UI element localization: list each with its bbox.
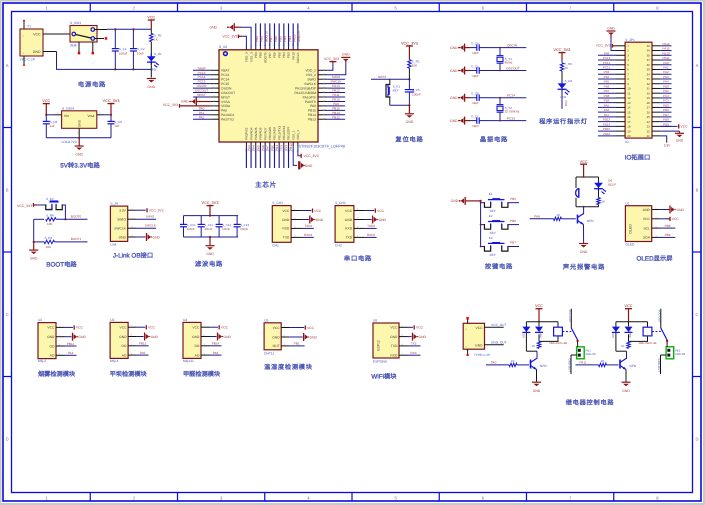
svg-text:RXD: RXD: [282, 227, 290, 231]
svg-text:VCC: VCC: [672, 217, 680, 221]
svg-text:OSCOUT: OSCOUT: [195, 89, 208, 93]
MCU bottom pins: [245, 126, 300, 153]
svg-text:PB4: PB4: [282, 52, 286, 58]
svg-text:PA10/RX: PA10/RX: [303, 95, 317, 99]
wire reset bottom: [390, 104, 410, 106]
button K2: [481, 224, 485, 226]
svg-text:PB12: PB12: [67, 342, 75, 346]
svg-text:PB7: PB7: [268, 52, 272, 58]
svg-text:OSCOUT: OSCOUT: [221, 91, 235, 95]
svg-text:PC0: PC0: [564, 101, 568, 107]
svg-text:PC13: PC13: [603, 56, 611, 60]
ground OLED: [660, 209, 668, 211]
svg-text:PA6: PA6: [213, 351, 219, 355]
MCU top pins: [245, 43, 300, 64]
svg-text:串口电路: 串口电路: [344, 254, 372, 262]
svg-text:PB0: PB0: [270, 145, 274, 151]
svg-text:PA6/AD6: PA6/AD6: [259, 127, 263, 140]
svg-text:PA1/AD1: PA1/AD1: [221, 113, 234, 117]
svg-text:GND: GND: [148, 85, 156, 89]
svg-text:LED: LED: [611, 333, 615, 338]
J-Link J6 body: [110, 206, 127, 241]
keys bus wire: [480, 201, 482, 246]
module U4 MQ131: [183, 318, 210, 363]
power VCC CH2: [365, 210, 375, 212]
svg-text:PA8: PA8: [310, 104, 316, 108]
MCU bottom wires: [246, 143, 293, 168]
svg-text:PA9/TX: PA9/TX: [305, 100, 317, 104]
svg-text:GND: GND: [78, 119, 82, 127]
svg-text:30: 30: [647, 91, 651, 95]
svg-text:PB8: PB8: [260, 36, 264, 42]
svg-text:D: D: [695, 436, 698, 441]
svg-text:VCC: VCC: [624, 304, 632, 308]
LED D2 run: [561, 81, 563, 92]
ground MCU bottom: [293, 147, 297, 166]
svg-text:VCC: VCC: [390, 326, 398, 330]
IO header pin numbers: [627, 44, 650, 138]
svg-text:PB2: PB2: [663, 103, 669, 107]
svg-text:RXD: RXD: [345, 227, 353, 231]
net VCC-OUT J7: [485, 326, 504, 328]
svg-text:NRST: NRST: [197, 93, 206, 97]
svg-text:18: 18: [627, 125, 631, 129]
MCU top wires: [255, 23, 301, 46]
svg-text:PA11: PA11: [579, 360, 586, 364]
svg-text:PA7: PA7: [266, 145, 270, 151]
svg-text:PC15: PC15: [198, 80, 206, 84]
svg-text:S_C4: S_C4: [471, 42, 479, 46]
svg-text:22: 22: [647, 129, 651, 133]
svg-text:SWIO: SWIO: [117, 218, 126, 222]
svg-text:VCC: VCC: [47, 326, 55, 330]
diode D green ch1: [522, 327, 530, 332]
wire crystal row 4: [486, 120, 526, 122]
net 3.3V IO row20: [660, 136, 666, 141]
svg-text:S_J6: S_J6: [110, 202, 118, 206]
svg-text:25: 25: [647, 115, 651, 119]
svg-text:GND: GND: [475, 344, 483, 348]
net RXD3: [408, 354, 421, 356]
switch output wire: [95, 29, 107, 31]
svg-text:K1: K1: [489, 192, 493, 196]
svg-text:PC14: PC14: [221, 78, 229, 82]
svg-text:GND: GND: [419, 335, 427, 339]
wire Vout: [97, 114, 104, 116]
svg-text:RX3: RX3: [410, 351, 416, 355]
ground boot: [33, 242, 35, 250]
diode D green ch2: [612, 327, 620, 332]
svg-text:PB8: PB8: [665, 224, 671, 228]
buzzer B1: [575, 177, 577, 188]
svg-text:GND: GND: [342, 53, 350, 57]
transistor Q3 NPN: [577, 215, 579, 224]
net PA7 DHT11: [290, 345, 305, 347]
svg-text:K2: K2: [489, 214, 493, 218]
svg-text:GND: GND: [533, 389, 541, 393]
svg-text:Vin: Vin: [64, 114, 69, 118]
svg-text:GND: GND: [181, 100, 189, 104]
svg-text:OSCIN: OSCIN: [197, 84, 207, 88]
svg-text:GND: GND: [79, 335, 87, 339]
svg-text:J-Link OB接口: J-Link OB接口: [113, 252, 153, 260]
svg-text:TXD1: TXD1: [304, 224, 312, 228]
svg-text:VCC: VCC: [643, 217, 651, 221]
svg-text:OUT: OUT: [273, 344, 280, 348]
OLED pins: [643, 207, 660, 240]
terminal wires ch1: [577, 341, 579, 347]
svg-text:S_C10: S_C10: [187, 223, 196, 227]
svg-text:S_R4: S_R4: [46, 213, 54, 217]
net SWIO: [137, 218, 156, 220]
power VCC U3: [137, 326, 146, 328]
svg-text:PB15: PB15: [308, 109, 316, 113]
svg-text:VCC: VCC: [221, 326, 229, 330]
svg-text:XBD-4W/C-4B: XBD-4W/C-4B: [549, 341, 567, 345]
svg-text:U8: U8: [373, 319, 377, 323]
svg-text:VCC: VCC: [377, 209, 385, 213]
svg-text:PB9: PB9: [604, 99, 610, 103]
svg-text:VCC: VCC: [192, 326, 200, 330]
power VCC IO row18: [660, 125, 677, 127]
svg-text:PB1: PB1: [663, 89, 669, 93]
LED D1: [150, 53, 152, 64]
ground filter: [209, 237, 211, 245]
svg-text:PA0: PA0: [221, 109, 227, 113]
svg-text:复位电路: 复位电路: [395, 136, 423, 144]
svg-text:GND: GND: [305, 164, 313, 168]
svg-text:VCC_3V3: VCC_3V3: [596, 44, 611, 48]
svg-text:S_SW1: S_SW1: [70, 21, 81, 25]
filter bottom rail: [184, 236, 239, 238]
svg-text:1K: 1K: [511, 359, 515, 363]
wire alarm emitter: [583, 225, 585, 244]
svg-text:甲醛检测模块: 甲醛检测模块: [183, 370, 220, 378]
svg-text:GND: GND: [450, 119, 458, 123]
svg-text:PA4/AD4: PA4/AD4: [249, 127, 253, 140]
svg-text:IO拓展口: IO拓展口: [625, 154, 651, 162]
svg-text:PA6: PA6: [604, 108, 610, 112]
svg-text:KEY: KEY: [490, 253, 496, 257]
MCU right wires: [327, 75, 345, 119]
wire boot left rail: [33, 219, 35, 242]
svg-text:S_C5: S_C5: [471, 65, 479, 69]
relay frame wires ch1: [526, 321, 558, 323]
capacitor C5: [408, 79, 410, 89]
svg-text:KEY: KEY: [393, 89, 399, 93]
capacitor S_C5: [470, 70, 477, 72]
svg-text:B: B: [696, 187, 699, 192]
svg-text:VCC-OUT: VCC-OUT: [568, 310, 572, 323]
svg-text:PA6: PA6: [261, 145, 265, 151]
capacitor S_C13: [236, 216, 238, 225]
svg-text:PA12/USB/DM: PA12/USB/DM: [294, 91, 316, 95]
T1 bottom pin: [23, 56, 25, 64]
power VCC_3V3 MCU bottom: [298, 147, 300, 156]
button K3: [481, 246, 485, 248]
wire R2 to node: [408, 68, 410, 79]
svg-text:ESP12: ESP12: [377, 340, 381, 351]
svg-text:GND: GND: [345, 218, 353, 222]
svg-text:DO: DO: [49, 344, 54, 348]
svg-text:11: 11: [627, 91, 630, 95]
svg-text:DO: DO: [194, 344, 199, 348]
svg-text:VCC: VCC: [120, 326, 128, 330]
svg-text:PB7: PB7: [269, 36, 273, 42]
svg-text:STM32F103C8T6_LQFP48: STM32F103C8T6_LQFP48: [299, 144, 345, 148]
svg-text:PA8: PA8: [604, 51, 610, 55]
svg-text:WiFi模块: WiFi模块: [371, 372, 397, 380]
svg-text:GND: GND: [450, 69, 458, 73]
svg-text:OLED: OLED: [625, 243, 635, 247]
svg-text:PB1/AD9: PB1/AD9: [273, 127, 277, 140]
svg-text:PC15: PC15: [507, 116, 515, 120]
MCU left pins: [210, 69, 235, 122]
alarm bottom node: [576, 206, 599, 208]
svg-text:PB6: PB6: [273, 52, 277, 58]
svg-text:35: 35: [647, 68, 651, 72]
wire emitter ch1: [536, 370, 538, 382]
switch S_SW1: [70, 26, 97, 43]
resistor R6: [561, 60, 563, 63]
svg-text:PA3: PA3: [247, 145, 251, 151]
svg-text:VBAT: VBAT: [603, 132, 611, 136]
svg-text:12pF: 12pF: [472, 124, 479, 128]
transistor NPN ch2: [619, 360, 621, 369]
svg-text:VCC: VCC: [476, 326, 484, 330]
svg-text:XBD-4W/C-4B: XBD-4W/C-4B: [639, 341, 657, 345]
svg-text:PC15: PC15: [221, 82, 229, 86]
svg-text:烟雾检测模块: 烟雾检测模块: [38, 370, 75, 378]
net PA6: [210, 354, 222, 356]
svg-text:SWIO: SWIO: [146, 215, 155, 219]
svg-text:VCC_3V3: VCC_3V3: [222, 34, 237, 38]
net RXD1: [302, 236, 314, 238]
resistor R2: [408, 60, 411, 69]
svg-text:8MHz: 8MHz: [505, 61, 513, 65]
svg-text:PB13: PB13: [308, 118, 316, 122]
ground U2: [65, 336, 72, 338]
svg-text:PB5: PB5: [278, 36, 282, 42]
module U2 MQ-2: [38, 318, 65, 363]
svg-text:32.768KHz: 32.768KHz: [505, 110, 520, 114]
svg-text:VBAT: VBAT: [221, 69, 229, 73]
capacitor C8: [45, 115, 47, 121]
relay coil box ch1: [554, 327, 563, 336]
svg-text:12pF: 12pF: [472, 101, 479, 105]
resistor relay coil ch2: [627, 341, 630, 348]
wire crystal row 2: [486, 70, 526, 72]
resistor R8 base: [554, 217, 562, 220]
svg-text:GND: GND: [272, 335, 280, 339]
svg-text:TX3: TX3: [280, 145, 284, 151]
svg-text:40: 40: [647, 44, 651, 48]
svg-text:21: 21: [647, 134, 651, 138]
wire R6 to LED: [561, 71, 563, 83]
svg-text:17: 17: [627, 120, 631, 124]
svg-text:A: A: [696, 63, 699, 68]
svg-text:OSCOUT: OSCOUT: [506, 66, 520, 70]
net PA5: [137, 354, 149, 356]
switch bottom pin 2: [92, 42, 94, 52]
MCU U6 body: [219, 50, 318, 142]
svg-text:PB12/SPI: PB12/SPI: [287, 126, 291, 140]
svg-text:VCC_3V3: VCC_3V3: [202, 201, 219, 205]
svg-text:23: 23: [647, 125, 651, 129]
svg-text:PA13/USB/DP: PA13/USB/DP: [295, 86, 317, 90]
diode D flyback ch2: [625, 327, 633, 332]
svg-text:3.3V: 3.3V: [664, 144, 671, 148]
svg-text:TAMP: TAMP: [197, 66, 205, 70]
svg-text:10uF: 10uF: [137, 51, 144, 55]
svg-text:SWIO: SWIO: [307, 78, 316, 82]
net PA4: [65, 354, 77, 356]
svg-text:PA4: PA4: [252, 145, 256, 151]
power VCC_3V3 jlink: [137, 209, 146, 211]
svg-text:BOOT1: BOOT1: [71, 237, 82, 241]
svg-text:GND: GND: [310, 335, 318, 339]
svg-text:U2: U2: [38, 318, 42, 322]
svg-text:T1: T1: [27, 25, 31, 29]
net BOOT0: [56, 218, 87, 220]
svg-text:VDD_1: VDD_1: [296, 130, 300, 140]
ground GND power circuit: [147, 78, 156, 80]
T1 top pin: [23, 22, 25, 30]
svg-text:VCC_3V3: VCC_3V3: [103, 99, 120, 103]
svg-text:PB12: PB12: [332, 115, 340, 119]
svg-text:MQ-4: MQ-4: [110, 359, 118, 363]
svg-text:PA5: PA5: [140, 351, 146, 355]
svg-text:PA7/AD7: PA7/AD7: [263, 127, 267, 140]
relay frame wires ch2: [616, 321, 648, 323]
svg-text:10K: 10K: [412, 64, 418, 68]
svg-text:PA2/TX2: PA2/TX2: [221, 118, 234, 122]
svg-text:PA1: PA1: [663, 66, 669, 70]
svg-text:33: 33: [647, 77, 651, 81]
svg-text:VSS_1: VSS_1: [291, 130, 295, 140]
resistor R4: [46, 218, 57, 221]
svg-text:PB14: PB14: [332, 111, 340, 115]
relay coil box ch2: [643, 327, 652, 336]
svg-text:PA4: PA4: [68, 351, 74, 355]
svg-text:滤波电路: 滤波电路: [195, 260, 223, 268]
svg-text:PA0: PA0: [199, 106, 205, 110]
net BOOT1: [55, 241, 88, 243]
svg-text:NPN: NPN: [540, 364, 547, 368]
svg-text:PB14: PB14: [308, 113, 316, 117]
svg-text:100nF: 100nF: [412, 92, 421, 96]
terminal wires ch2: [666, 341, 668, 347]
svg-text:12pF: 12pF: [472, 51, 479, 55]
ground regulator: [78, 138, 80, 146]
svg-text:10K: 10K: [47, 222, 53, 226]
net GND-OUT J7: [485, 344, 504, 346]
svg-text:MQ131: MQ131: [183, 359, 194, 363]
connector T1: [20, 29, 43, 56]
relay contact dashed ch2: [652, 331, 661, 333]
svg-text:GND: GND: [677, 208, 685, 212]
svg-text:PC14: PC14: [198, 75, 206, 79]
svg-text:PA11: PA11: [332, 93, 339, 97]
svg-text:38: 38: [647, 53, 651, 57]
regulator U3 LD1117: [62, 111, 97, 129]
connector J7 TYPE-C: [463, 323, 484, 349]
svg-text:GND-OUT: GND-OUT: [567, 359, 571, 373]
svg-text:NPN: NPN: [587, 219, 594, 223]
switch bottom pin 1: [78, 42, 80, 52]
svg-text:PA0: PA0: [663, 61, 669, 65]
svg-text:PA15: PA15: [662, 47, 669, 51]
J7 top pin: [467, 319, 469, 323]
svg-text:SWCLK: SWCLK: [304, 82, 317, 86]
svg-text:PC15: PC15: [603, 66, 611, 70]
svg-text:PC14: PC14: [507, 94, 515, 98]
svg-text:GND: GND: [643, 208, 651, 212]
ground CH2: [365, 219, 372, 221]
svg-text:PB6: PB6: [604, 84, 610, 88]
svg-text:SWCLK: SWCLK: [296, 51, 300, 63]
svg-text:5V转3.3V电路: 5V转3.3V电路: [60, 162, 100, 170]
J7 bottom pin: [467, 349, 469, 354]
svg-text:C: C: [695, 312, 698, 317]
svg-text:U5: U5: [264, 318, 268, 322]
svg-text:PB9: PB9: [663, 122, 669, 126]
svg-text:SCL: SCL: [643, 226, 650, 230]
svg-text:VCC: VCC: [147, 16, 155, 20]
net RXD2: [365, 236, 377, 238]
svg-text:S_C7: S_C7: [471, 115, 479, 119]
svg-text:S_C6: S_C6: [471, 92, 479, 96]
svg-text:PB9: PB9: [254, 52, 258, 58]
svg-text:PC5: PC5: [663, 99, 669, 103]
svg-text:AO: AO: [122, 353, 127, 357]
svg-text:GND: GND: [47, 335, 55, 339]
svg-text:100nF: 100nF: [187, 227, 195, 231]
svg-text:VCC_3V3: VCC_3V3: [149, 209, 164, 213]
svg-text:SWCLK: SWCLK: [297, 30, 301, 42]
svg-text:VCC_3V3: VCC_3V3: [163, 103, 178, 107]
ground CH1: [302, 219, 309, 221]
svg-text:PA15: PA15: [293, 34, 297, 42]
svg-text:KEY: KEY: [490, 209, 496, 213]
OLED U1 body: [625, 206, 651, 242]
svg-text:GND: GND: [119, 335, 127, 339]
svg-text:VCC_3V3: VCC_3V3: [17, 204, 32, 208]
svg-text:PA5: PA5: [256, 145, 260, 151]
svg-text:VCC: VCC: [580, 160, 588, 164]
ground relay ch1: [532, 381, 541, 383]
ground DHT11: [290, 336, 303, 338]
svg-text:SWCLK: SWCLK: [114, 227, 127, 231]
svg-text:VCC_OUT: VCC_OUT: [491, 323, 506, 327]
svg-text:S_U6: S_U6: [219, 45, 228, 49]
svg-text:NRST: NRST: [221, 95, 230, 99]
button K1 reset: [389, 79, 391, 84]
power VCC U4: [210, 326, 219, 328]
svg-text:S_U304: S_U304: [62, 106, 74, 110]
svg-text:S_C12: S_C12: [222, 223, 231, 227]
svg-text:GND: GND: [75, 153, 83, 157]
svg-text:OLED: OLED: [629, 224, 633, 234]
capacitor S_C11: [200, 216, 202, 225]
svg-text:PA8: PA8: [534, 214, 540, 218]
svg-text:VCC_3V3: VCC_3V3: [324, 57, 339, 61]
ground WiFi: [408, 336, 412, 338]
wire T1 GND: [43, 51, 57, 53]
MCU right pins: [294, 69, 327, 122]
svg-text:RXD1: RXD1: [304, 233, 313, 237]
svg-text:PB3: PB3: [604, 70, 610, 74]
